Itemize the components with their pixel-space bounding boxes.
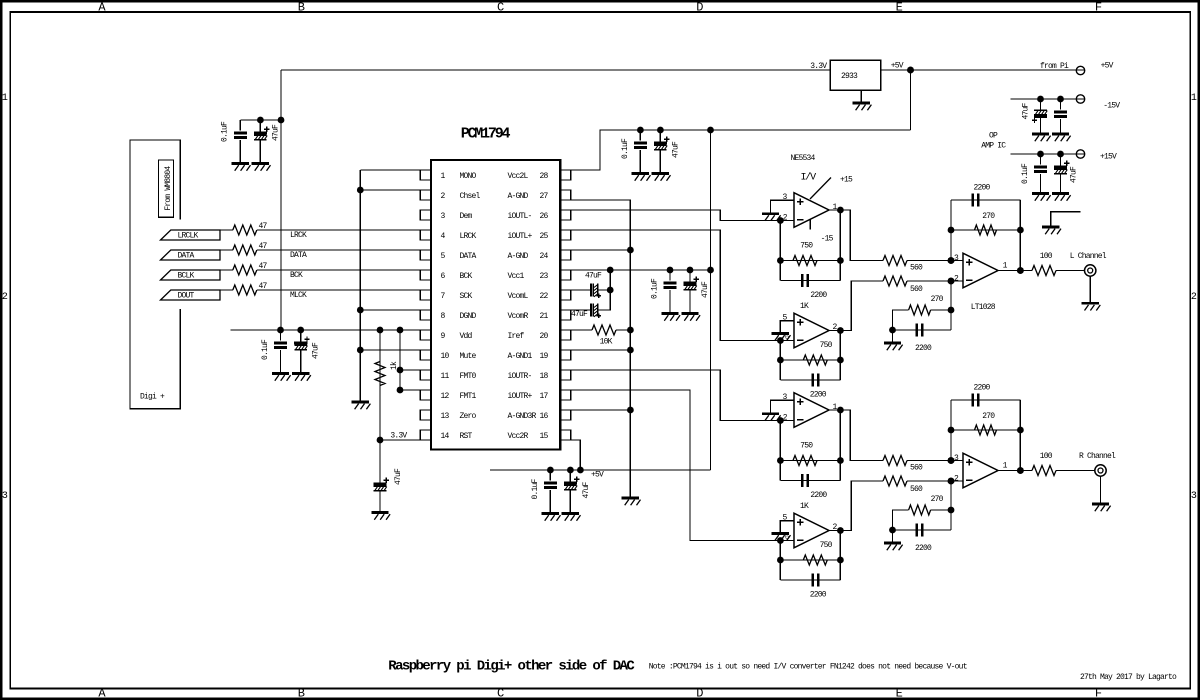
svg-text:2200: 2200 bbox=[973, 184, 990, 193]
svg-text:26: 26 bbox=[540, 212, 549, 221]
svg-text:B: B bbox=[298, 0, 305, 14]
svg-text:SCK: SCK bbox=[460, 292, 473, 301]
svg-text:20: 20 bbox=[540, 332, 549, 341]
svg-text:NE5534: NE5534 bbox=[790, 154, 815, 163]
svg-text:1K: 1K bbox=[800, 302, 809, 311]
svg-text:Vcc2R: Vcc2R bbox=[508, 432, 529, 441]
svg-text:270: 270 bbox=[982, 412, 995, 421]
svg-text:Vcc2L: Vcc2L bbox=[508, 172, 529, 181]
svg-text:2200: 2200 bbox=[973, 384, 990, 393]
svg-text:VcomR: VcomR bbox=[508, 312, 529, 321]
svg-text:27th May 2017 by Lagarto: 27th May 2017 by Lagarto bbox=[1080, 673, 1177, 682]
svg-text:LT1028: LT1028 bbox=[971, 303, 996, 312]
svg-text:A-GND3R: A-GND3R bbox=[508, 412, 537, 421]
svg-text:0.1uF: 0.1uF bbox=[531, 479, 540, 500]
svg-text:C: C bbox=[497, 0, 504, 14]
svg-text:iOUTR+: iOUTR+ bbox=[508, 392, 533, 401]
svg-text:D: D bbox=[696, 0, 703, 14]
svg-text:DOUT: DOUT bbox=[178, 291, 195, 300]
svg-text:21: 21 bbox=[540, 312, 549, 321]
svg-text:A-GND: A-GND bbox=[508, 192, 529, 201]
svg-text:from Pi: from Pi bbox=[1040, 62, 1069, 71]
svg-text:19: 19 bbox=[540, 352, 549, 361]
svg-text:Dem: Dem bbox=[460, 212, 473, 221]
svg-text:3.3V: 3.3V bbox=[810, 62, 827, 71]
svg-text:LRCK: LRCK bbox=[290, 231, 307, 240]
svg-text:0.1uF: 0.1uF bbox=[221, 121, 230, 142]
svg-text:3.3V: 3.3V bbox=[390, 431, 407, 440]
svg-text:Mute: Mute bbox=[460, 352, 477, 361]
svg-text:iOUTL+: iOUTL+ bbox=[508, 232, 533, 241]
svg-text:47uF: 47uF bbox=[701, 281, 710, 298]
svg-text:750: 750 bbox=[820, 341, 833, 350]
svg-text:47uF: 47uF bbox=[272, 124, 281, 141]
svg-text:750: 750 bbox=[800, 242, 813, 251]
svg-text:560: 560 bbox=[910, 285, 923, 294]
svg-text:+15: +15 bbox=[840, 175, 853, 184]
svg-text:VcomL: VcomL bbox=[508, 292, 529, 301]
svg-text:Digi +: Digi + bbox=[140, 392, 165, 401]
svg-text:0.1uF: 0.1uF bbox=[261, 339, 270, 360]
svg-text:47uF: 47uF bbox=[571, 310, 588, 319]
svg-text:27: 27 bbox=[540, 192, 549, 201]
svg-text:47uF: 47uF bbox=[672, 141, 681, 158]
svg-text:0.1uF: 0.1uF bbox=[651, 278, 660, 299]
svg-text:270: 270 bbox=[931, 295, 944, 304]
svg-text:750: 750 bbox=[820, 541, 833, 550]
svg-text:BCK: BCK bbox=[460, 272, 473, 281]
svg-text:18: 18 bbox=[540, 372, 549, 381]
svg-text:2200: 2200 bbox=[915, 544, 932, 553]
svg-text:F: F bbox=[1095, 687, 1102, 700]
svg-text:25: 25 bbox=[540, 232, 549, 241]
svg-text:16: 16 bbox=[540, 412, 549, 421]
svg-text:560: 560 bbox=[910, 264, 923, 273]
svg-text:iOUTR-: iOUTR- bbox=[508, 372, 532, 381]
svg-text:A-GND1: A-GND1 bbox=[508, 352, 533, 361]
svg-text:Iref: Iref bbox=[508, 332, 525, 341]
svg-text:47: 47 bbox=[259, 282, 268, 291]
svg-text:Note :PCM1794 is i out so need: Note :PCM1794 is i out so need I/V conve… bbox=[649, 662, 967, 671]
svg-text:Vcc1: Vcc1 bbox=[508, 272, 525, 281]
svg-text:47: 47 bbox=[259, 242, 268, 251]
svg-text:2200: 2200 bbox=[810, 491, 827, 500]
svg-text:PCM1794: PCM1794 bbox=[461, 125, 511, 142]
svg-text:DATA: DATA bbox=[178, 251, 195, 260]
svg-text:+5V: +5V bbox=[891, 62, 904, 71]
svg-text:47uF: 47uF bbox=[582, 482, 591, 499]
svg-text:BCK: BCK bbox=[290, 271, 303, 280]
svg-text:From WM8804: From WM8804 bbox=[164, 166, 173, 211]
svg-text:AMP IC: AMP IC bbox=[981, 142, 1006, 151]
svg-text:+15V: +15V bbox=[1100, 152, 1117, 161]
svg-text:DGND: DGND bbox=[460, 312, 477, 321]
svg-text:E: E bbox=[896, 0, 903, 14]
svg-text:28: 28 bbox=[540, 172, 549, 181]
svg-text:R Channel: R Channel bbox=[1079, 452, 1116, 461]
svg-text:2200: 2200 bbox=[915, 344, 932, 353]
svg-text:L Channel: L Channel bbox=[1070, 252, 1107, 261]
svg-text:47uF: 47uF bbox=[312, 342, 321, 359]
svg-text:560: 560 bbox=[910, 485, 923, 494]
svg-text:10: 10 bbox=[441, 352, 450, 361]
svg-text:47uF: 47uF bbox=[1022, 103, 1031, 120]
svg-text:LRCK: LRCK bbox=[460, 232, 477, 241]
svg-text:F: F bbox=[1095, 0, 1102, 14]
svg-text:100: 100 bbox=[1040, 452, 1053, 461]
svg-text:23: 23 bbox=[540, 272, 549, 281]
svg-text:47uF: 47uF bbox=[1069, 166, 1078, 183]
svg-text:2200: 2200 bbox=[810, 591, 827, 600]
svg-text:1K: 1K bbox=[800, 502, 809, 511]
svg-text:D: D bbox=[696, 687, 703, 700]
svg-text:RST: RST bbox=[460, 432, 473, 441]
svg-text:Raspberry pi Digi+ other side: Raspberry pi Digi+ other side of DAC bbox=[388, 658, 635, 674]
svg-text:Vdd: Vdd bbox=[460, 332, 473, 341]
svg-text:560: 560 bbox=[910, 464, 923, 473]
svg-text:47: 47 bbox=[259, 222, 268, 231]
svg-text:47uF: 47uF bbox=[585, 272, 602, 281]
svg-text:DATA: DATA bbox=[290, 251, 307, 260]
svg-text:MLCK: MLCK bbox=[290, 291, 307, 300]
svg-text:+5V: +5V bbox=[1101, 62, 1114, 71]
svg-text:B: B bbox=[298, 687, 305, 700]
svg-text:+5V: +5V bbox=[591, 470, 604, 479]
svg-text:iOUTL-: iOUTL- bbox=[508, 212, 532, 221]
svg-text:-15V: -15V bbox=[1103, 102, 1120, 111]
svg-text:FMT1: FMT1 bbox=[460, 392, 477, 401]
svg-text:270: 270 bbox=[931, 495, 944, 504]
svg-text:47: 47 bbox=[259, 262, 268, 271]
svg-text:OP: OP bbox=[989, 132, 998, 141]
svg-text:FMT0: FMT0 bbox=[460, 372, 477, 381]
svg-text:2933: 2933 bbox=[841, 72, 858, 81]
svg-text:10K: 10K bbox=[600, 338, 613, 347]
svg-text:270: 270 bbox=[982, 212, 995, 221]
svg-text:11: 11 bbox=[441, 372, 450, 381]
svg-text:47uF: 47uF bbox=[394, 468, 403, 485]
svg-text:24: 24 bbox=[540, 252, 549, 261]
svg-text:22: 22 bbox=[540, 292, 549, 301]
svg-text:-15: -15 bbox=[821, 235, 834, 244]
svg-text:17: 17 bbox=[540, 392, 549, 401]
svg-text:2200: 2200 bbox=[810, 391, 827, 400]
svg-text:E: E bbox=[896, 687, 903, 700]
svg-text:BCLK: BCLK bbox=[178, 271, 195, 280]
svg-text:I/V: I/V bbox=[801, 171, 817, 183]
svg-text:0.1uF: 0.1uF bbox=[1021, 163, 1030, 184]
svg-text:DATA: DATA bbox=[460, 252, 477, 261]
svg-text:13: 13 bbox=[441, 412, 450, 421]
svg-text:100: 100 bbox=[1040, 252, 1053, 261]
svg-text:15: 15 bbox=[540, 432, 549, 441]
svg-text:MONO: MONO bbox=[460, 172, 477, 181]
svg-text:Chsel: Chsel bbox=[460, 192, 481, 201]
svg-text:750: 750 bbox=[800, 442, 813, 451]
svg-text:2200: 2200 bbox=[810, 291, 827, 300]
svg-text:12: 12 bbox=[441, 392, 450, 401]
svg-text:LRCLK: LRCLK bbox=[178, 231, 199, 240]
svg-text:0.1uF: 0.1uF bbox=[621, 138, 630, 159]
svg-text:Zero: Zero bbox=[460, 412, 477, 421]
svg-text:14: 14 bbox=[441, 432, 450, 441]
svg-text:C: C bbox=[497, 687, 504, 700]
svg-text:A-GND: A-GND bbox=[508, 252, 529, 261]
